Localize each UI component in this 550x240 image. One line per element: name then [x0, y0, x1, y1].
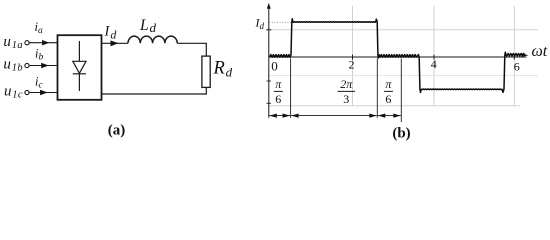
current arrow Id: [111, 40, 119, 46]
extension line x=pi/6: [290, 59, 292, 118]
current arrow ic: [40, 90, 48, 95]
svg-text:2π: 2π: [340, 77, 353, 91]
svg-text:4: 4: [431, 57, 437, 71]
extension line x=5pi/6: [376, 59, 378, 118]
ticks on extension: [267, 80, 271, 82]
terminal u1b: [25, 63, 29, 67]
wire phase b: [29, 65, 57, 67]
rectifier bridge U1: [58, 35, 102, 100]
x-axis: [269, 56, 527, 58]
fraction pi/6 second: [384, 77, 393, 106]
svg-text:(a): (a): [108, 123, 126, 139]
svg-text:3: 3: [343, 92, 349, 106]
diode D1: [73, 41, 86, 91]
svg-text:ωt: ωt: [532, 43, 548, 60]
wire Ld to Rd: [177, 43, 206, 56]
wire phase a: [29, 42, 57, 44]
dimension 2pi/3: [291, 114, 377, 118]
x ticks: [353, 55, 515, 60]
svg-text:π: π: [385, 77, 392, 91]
svg-text:0: 0: [271, 59, 278, 74]
fraction pi/6 first: [274, 77, 283, 106]
dotted Id level line: [269, 21, 291, 23]
svg-text:π: π: [275, 77, 282, 91]
extension line x=pi: [400, 59, 402, 123]
wire node N (dc-): [102, 87, 207, 94]
wire phase c: [29, 92, 57, 94]
y-axis: [268, 6, 270, 118]
svg-text:6: 6: [514, 60, 520, 74]
svg-text:6: 6: [275, 92, 281, 106]
inductor Ld: [128, 36, 177, 43]
wire node P (dc+): [102, 42, 129, 44]
fraction 2pi/3: [338, 77, 356, 106]
svg-text:6: 6: [385, 92, 391, 106]
terminal u1a: [25, 41, 29, 45]
dimension pi/6 (0 to pi/6): [269, 114, 290, 118]
current arrow ib: [41, 63, 49, 68]
current arrow ia: [42, 40, 50, 45]
svg-text:2: 2: [349, 58, 355, 72]
resistor Rd: [202, 56, 210, 87]
svg-text:(b): (b): [392, 126, 410, 142]
svg-text:Ld: Ld: [139, 17, 157, 35]
waveform id: [270, 19, 525, 93]
terminal u1c: [25, 90, 29, 94]
dimension pi/6 (5pi/6 to pi): [378, 114, 401, 118]
